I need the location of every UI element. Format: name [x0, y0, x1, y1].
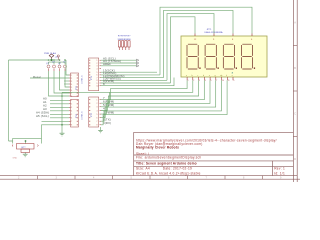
wire A2 [50, 106, 69, 108]
wire 9 [101, 82, 171, 84]
svg-text:5: 5 [211, 80, 212, 82]
svg-text:d: d [203, 75, 204, 77]
title block vertical divider rev column [271, 161, 273, 176]
sheet frame right inner border [292, 0, 294, 182]
display top pin 8 [232, 34, 234, 37]
wire Q1 base [49, 71, 70, 96]
svg-text:6: 6 [71, 118, 72, 120]
svg-text:4: 4 [97, 110, 98, 112]
svg-text:10: 10 [97, 86, 99, 88]
wire emitter bus [49, 61, 66, 63]
svg-text:Id: 1/1: Id: 1/1 [274, 172, 285, 176]
wire A4 [101, 62, 137, 64]
svg-text:b: b [192, 75, 193, 77]
svg-text:2: 2 [97, 103, 98, 105]
svg-text:Reset: Reset [33, 75, 41, 79]
svg-text:4: 4 [97, 68, 98, 70]
connector P2 pins right [100, 100, 102, 125]
svg-text:2: 2 [193, 80, 194, 82]
wire A4b [50, 113, 69, 115]
svg-text:Marginally Clever Robots: Marginally Clever Robots [136, 145, 179, 149]
battery BT1 side hooks [12, 145, 38, 147]
battery BT1 inner [21, 149, 30, 153]
svg-text:5: 5 [97, 114, 98, 116]
svg-text:n: n [232, 75, 233, 77]
svg-text:8: 8 [71, 125, 72, 127]
connector P4 pin numbers [71, 100, 72, 127]
junction dot gnd top [61, 95, 63, 97]
connector P4 body [71, 100, 79, 128]
wire seg 6 [101, 80, 193, 103]
wire digit select 4 [171, 17, 196, 83]
svg-text:h: h [226, 75, 227, 77]
wire A5 [101, 59, 137, 61]
svg-text:2: 2 [71, 78, 72, 80]
sheet frame bottom outer border [0, 178, 300, 180]
digit 2 decimal point [218, 68, 219, 69]
wire AREF [101, 65, 137, 67]
svg-text:dp: dp [220, 75, 222, 77]
svg-text:7: 7 [216, 80, 217, 82]
svg-text:1: 1 [71, 100, 72, 102]
svg-text:5: 5 [71, 87, 72, 89]
global label arrow A4 [137, 62, 139, 64]
transistor Q4 [64, 62, 67, 71]
wire A1 [50, 103, 69, 105]
wire gnd left run [62, 91, 109, 93]
resistor R3 [124, 36, 128, 50]
wire 12 [101, 74, 160, 76]
junction dot rail q2 [53, 59, 55, 61]
svg-text:9: 9 [97, 83, 98, 85]
connector P3 body [71, 73, 79, 97]
wire A3 [50, 110, 69, 112]
wire digit select 2 [164, 10, 234, 77]
junction dot rail q3 [59, 59, 61, 61]
transistor labels [46, 61, 67, 65]
connector P1 pin numbers [97, 60, 99, 88]
wire 10 [101, 79, 167, 81]
wire p3 pin4 stub [64, 83, 69, 85]
digit 2 [205, 44, 216, 69]
svg-text:GND: GND [13, 158, 18, 160]
svg-text:0(RX): 0(RX) [103, 121, 111, 125]
display top pin 6 [251, 34, 253, 37]
wire seg 7 [101, 80, 187, 99]
svg-text:CONN_8: CONN_8 [82, 111, 84, 120]
display U1 body [181, 36, 267, 77]
svg-text:2: 2 [97, 63, 98, 65]
connector P3 pin numbers [71, 75, 72, 98]
svg-text:6: 6 [97, 75, 98, 77]
connector P4 pins left [69, 100, 71, 125]
wire A5b [50, 117, 69, 119]
digit 1 [187, 44, 198, 69]
digit 1 decimal point [199, 68, 200, 69]
battery ground stub [24, 153, 26, 155]
wire Q3 base [60, 71, 70, 90]
svg-text:1: 1 [97, 60, 98, 62]
display top pin 9 [213, 34, 215, 37]
frame ticks right edge [293, 46, 297, 137]
svg-text:4: 4 [205, 80, 206, 82]
svg-text:8: 8 [103, 82, 105, 86]
digit 3 decimal point [236, 68, 237, 69]
junction dot gnd [61, 124, 63, 126]
svg-text:e: e [209, 75, 210, 77]
svg-text:File: arduinoSevenSegmentDispl: File: arduinoSevenSegmentDisplay.sch [136, 156, 201, 160]
connector P2 left pin numbers [88, 99, 91, 125]
resistor R1 [118, 36, 122, 50]
frame ticks bottom edge [38, 176, 263, 180]
connector P4 right pin numbers [76, 100, 79, 126]
svg-text:JP?1: JP?1 [207, 29, 213, 31]
svg-text:8: 8 [71, 96, 72, 98]
connector P2 body [89, 97, 99, 127]
resistor R4 [127, 36, 131, 50]
transistor Q2 [53, 62, 56, 71]
svg-text:CONN_8: CONN_8 [82, 75, 84, 84]
wire Q4 base [65, 71, 69, 87]
wire seg 0 [101, 80, 227, 125]
global label arrow A5 [137, 59, 139, 61]
svg-text:8: 8 [97, 80, 98, 82]
wire left vertical [8, 60, 10, 141]
svg-text:c: c [197, 75, 198, 77]
gnd symbol under P2 [98, 127, 103, 133]
svg-text:11: 11 [228, 80, 230, 82]
+5V symbol [57, 55, 59, 60]
wire seg 3 [101, 80, 210, 114]
svg-text:8: 8 [97, 125, 98, 127]
svg-text:5: 5 [97, 72, 98, 74]
wire seg 5 [101, 80, 199, 107]
svg-text:A5 (SCL): A5 (SCL) [36, 114, 49, 118]
svg-text:7: 7 [71, 93, 72, 95]
title block divider under title row [134, 160, 294, 162]
svg-text:5: 5 [233, 80, 234, 82]
ground symbol under battery [23, 154, 28, 157]
svg-text:Title: Seven segment Arduino d: Title: Seven segment Arduino demo [136, 161, 197, 165]
wire digit select 3 [167, 14, 214, 81]
wire gnd down [61, 92, 63, 133]
wire seg 2 [101, 80, 216, 117]
svg-text:6: 6 [71, 90, 72, 92]
svg-text:3: 3 [97, 66, 98, 68]
svg-text:1: 1 [188, 80, 189, 82]
wire 13 [101, 71, 157, 73]
connector P3 right pin numbers [76, 75, 79, 97]
display top pin numbers [194, 39, 253, 41]
wire A0 [50, 99, 69, 101]
ground symbol [60, 133, 65, 136]
svg-text:3: 3 [71, 107, 72, 109]
svg-text:Rev: 1: Rev: 1 [274, 166, 285, 170]
svg-text:6: 6 [97, 117, 98, 119]
svg-text:3: 3 [199, 80, 200, 82]
wire seg 1 [101, 80, 221, 121]
wire p4 pin7 [42, 120, 70, 122]
junction dot rail q4 [64, 59, 66, 61]
svg-text:AREF: AREF [103, 62, 111, 66]
display top pin 12 [194, 34, 196, 37]
wire 5v to shield [66, 60, 69, 75]
svg-text:7: 7 [97, 77, 98, 79]
digit 4 decimal point [254, 68, 255, 69]
svg-text:C: C [294, 113, 296, 116]
digit 4 [241, 44, 252, 69]
wire digit select 1 [160, 7, 252, 75]
transistor Q3 [58, 62, 61, 71]
svg-text:g: g [215, 75, 216, 77]
svg-text:1: 1 [71, 75, 72, 77]
title block divider under file row [134, 154, 294, 156]
svg-text:KiCad E.D.A. kicad 4.0.2+dfsg: KiCad E.D.A. kicad 4.0.2+dfsg1-stable [136, 172, 201, 176]
junction dot rail [50, 59, 52, 61]
connector P3 pins left [69, 75, 71, 96]
svg-text:Size: A4 Date: 2017-: Size: A4 Date: 2017-02-19 [136, 166, 192, 170]
global label arrow AREF [137, 65, 139, 67]
svg-text:3: 3 [71, 81, 72, 83]
title block outline [134, 132, 294, 175]
wire Q2 base [54, 71, 69, 93]
junction dot battery [25, 140, 27, 142]
connector P1 pins right [100, 60, 102, 85]
connector P2 pin numbers [97, 99, 98, 126]
transistor Q1 [47, 62, 50, 71]
svg-text:10: 10 [222, 80, 224, 82]
frame column numbers bottom edge [18, 177, 282, 180]
wire 8 [101, 78, 174, 86]
wire 5v rail [9, 59, 59, 61]
wire p4 pin8 [42, 125, 70, 139]
junction dot rail q1 [48, 59, 50, 61]
connector P1 left pin numbers [88, 60, 91, 86]
wire p3 pin3 stub [64, 80, 69, 82]
svg-text:3: 3 [97, 107, 98, 109]
svg-text:7: 7 [71, 121, 72, 123]
svg-text:D: D [294, 158, 296, 161]
wire 11 [101, 77, 164, 79]
battery BT1 wires top [9, 138, 42, 143]
svg-text:PWR_FLAG: PWR_FLAG [44, 52, 56, 55]
svg-text:7: 7 [97, 121, 98, 123]
sheet frame bottom inner border [0, 175, 297, 177]
wire seg 4 [101, 80, 204, 110]
digit 3 [223, 44, 234, 69]
svg-text:2: 2 [71, 104, 72, 106]
display bottom pins [187, 77, 233, 80]
frame row letters right edge [294, 22, 296, 162]
display bottom pin numbers [188, 80, 235, 82]
title block divider under size row [134, 165, 294, 167]
svg-text:4: 4 [71, 84, 72, 86]
svg-text:1: 1 [97, 99, 98, 101]
sheet frame right outer border [296, 0, 298, 182]
wire reset [30, 77, 69, 79]
svg-text:4: 4 [71, 111, 72, 113]
connector P1 body [89, 58, 99, 91]
display bottom pin names [186, 75, 233, 77]
resistor R2 [121, 36, 125, 50]
svg-text:a: a [186, 75, 187, 77]
battery BT1 body [17, 144, 35, 150]
svg-text:5: 5 [71, 114, 72, 116]
pwr flag symbol [49, 54, 54, 60]
